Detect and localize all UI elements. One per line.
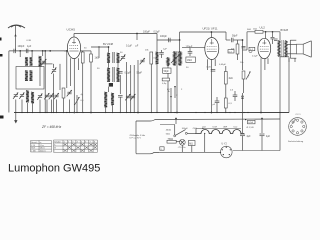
wire top bus 1: [74, 33, 157, 35]
wire top cap link: [226, 38, 243, 42]
bus junction 13: [76, 112, 77, 113]
wire drop b2: [27, 103, 29, 113]
resistor R10: [242, 71, 245, 93]
IF transformer T1 secondary: [107, 67, 120, 82]
wire T1 top: [91, 46, 109, 58]
wire v60: [59, 64, 61, 90]
svg-text:BV428: BV428: [281, 29, 289, 32]
wire ot top: [279, 32, 281, 41]
capacitor C5: [118, 72, 123, 74]
table wave ranges: [31, 141, 52, 153]
bus junction 30: [204, 112, 205, 113]
scan mark 1: [0, 38, 2, 41]
svg-text:CC·1: CC·1: [296, 114, 302, 116]
wire left drop: [8, 51, 10, 113]
svg-text:4kΩ: 4kΩ: [229, 78, 233, 80]
node t1: [136, 33, 138, 35]
resistor R4: [150, 52, 153, 113]
wire c15 down: [242, 136, 244, 151]
table switch matrix: [54, 140, 98, 153]
svg-text:U·Y2: U·Y2: [222, 144, 228, 146]
heater line 2: [136, 119, 280, 121]
wire bottom 1: [160, 151, 221, 153]
tube1 pin 2: [73, 58, 75, 113]
svg-text:0,5µF: 0,5µF: [154, 31, 161, 34]
label 70V: [192, 128, 197, 130]
label 0.1uF t1: [126, 45, 133, 47]
capacitor C14: [274, 39, 278, 40]
diode D1: [241, 93, 244, 133]
label 0.1uF side: [81, 100, 85, 102]
capacitor C12: [233, 91, 238, 101]
resistor R9: [231, 40, 239, 60]
trimmer CT9: [120, 55, 125, 61]
bus junction 3: [32, 112, 33, 113]
tube1 pin 1: [70, 58, 72, 86]
svg-text:3: 3: [72, 141, 73, 143]
trimmer CT1: [41, 59, 46, 65]
label 30 l: [97, 68, 100, 70]
coil L10 bottom: [111, 93, 114, 113]
coil wave band: [167, 58, 169, 113]
tube U3 UL2: [258, 38, 271, 58]
bus junction 32: [216, 112, 217, 113]
bus junction 7: [51, 112, 52, 113]
coil L7: [31, 92, 34, 103]
tube U1 UCH5: [67, 37, 80, 59]
wire antenna input: [9, 50, 68, 52]
bus junction 1: [21, 112, 22, 113]
resistor R6 box: [186, 57, 196, 62]
bus junction 25: [167, 112, 168, 113]
wire r12 lamp: [176, 141, 180, 143]
label 50pF a: [137, 72, 143, 75]
wire drop b8: [69, 100, 71, 113]
bus junction 6: [46, 112, 47, 113]
bus junction 8: [53, 112, 54, 113]
wire drop t1: [136, 34, 138, 41]
boxed label 50pF: [163, 68, 171, 73]
capacitor C1 100pF: [14, 49, 16, 53]
label UCH5: [67, 28, 76, 32]
wire tube1 left: [64, 50, 67, 52]
wire x136 down: [135, 121, 137, 154]
svg-text:0,1µF: 0,1µF: [126, 45, 133, 47]
label 0.5uF top: [154, 31, 161, 34]
bus junction 21: [134, 112, 135, 113]
boxed label right of U2: [228, 50, 234, 54]
wire ift2 bottom: [176, 66, 178, 114]
svg-text:L 180: L 180: [31, 151, 35, 153]
wire B1 vertical: [242, 39, 244, 70]
scan mark 2: [0, 54, 3, 57]
wire drop b7: [56, 100, 58, 113]
label 0.1uF a: [125, 72, 132, 75]
label UL2: [260, 26, 266, 30]
tube socket diagram: [289, 118, 307, 136]
svg-text:4µF: 4µF: [247, 136, 252, 138]
bus junction 26: [170, 112, 171, 113]
resistor R7: [224, 66, 227, 98]
wire top bus 3: [247, 31, 280, 33]
trimmer CT8: [67, 90, 72, 96]
svg-text:UCH: UCH: [213, 127, 218, 129]
resistor R11: [253, 28, 263, 33]
bus junction 33: [225, 112, 226, 113]
svg-text:Ø 1,5Ω: Ø 1,5Ω: [247, 127, 254, 129]
svg-text:0,05µF: 0,05µF: [219, 64, 227, 66]
coil L2: [30, 57, 33, 65]
AV arrows: [168, 86, 178, 113]
label 1kOhm: [95, 57, 100, 60]
node t4: [272, 31, 274, 33]
trimmer CT11: [125, 94, 130, 100]
capacitor C9: [188, 48, 193, 56]
tube3 pin2: [264, 58, 266, 70]
capacitor C6: [118, 75, 123, 113]
ground symbol: [14, 113, 17, 124]
wire drop k2: [31, 51, 33, 57]
tube2 pin1: [207, 59, 209, 70]
bus junction 36: [243, 112, 244, 113]
bus junction 9: [56, 112, 57, 113]
label 0.5 j: [230, 90, 234, 92]
trimmer CT4: [37, 94, 42, 100]
label 0.1 h: [252, 56, 258, 58]
capacitor C15 4uF: [240, 134, 251, 138]
trimmer CT2: [13, 93, 18, 99]
resistor R2: [81, 51, 84, 113]
svg-text:K 16: K 16: [31, 145, 35, 147]
bus junction 27: [174, 112, 175, 113]
svg-text:Schalter: Schalter: [54, 140, 61, 143]
wire top bus 2: [180, 32, 226, 40]
speaker LS: [287, 40, 311, 58]
shield box antenna coils: [16, 67, 44, 90]
coil L9 bottom: [104, 92, 107, 113]
bus junction 11: [66, 112, 67, 113]
coil L1: [25, 57, 28, 65]
node a3: [42, 50, 44, 52]
scan mark 3: [0, 116, 4, 119]
bus junction 31: [211, 112, 212, 113]
boxed label fuse: [247, 120, 256, 129]
resistor R5: [162, 78, 170, 85]
meter lamp big: [221, 144, 233, 158]
wire T1 bottom: [108, 87, 110, 92]
bus junction 35: [234, 112, 235, 113]
wire v126: [126, 62, 128, 113]
label 30pF: [84, 48, 87, 50]
svg-text:5kΩ: 5kΩ: [247, 29, 251, 31]
svg-text:Lumophon GW495: Lumophon GW495: [8, 162, 100, 174]
tube U2 UBF11: [205, 38, 219, 60]
svg-text:8: 8: [94, 141, 95, 143]
svg-text:50pF: 50pF: [137, 72, 143, 75]
label 50pF b: [232, 35, 238, 38]
node t3: [265, 31, 267, 33]
pot arrow P2: [246, 72, 251, 80]
wire meter left: [220, 152, 221, 153]
label 0.05 f: [219, 64, 227, 66]
bus junction 24: [156, 112, 157, 113]
trimmer CT7: [54, 93, 59, 99]
wire link l2: [175, 118, 177, 124]
label BV2248: [103, 42, 114, 46]
boxed label 0.1: [249, 47, 255, 51]
tube3 pin1: [260, 58, 262, 113]
svg-text:7: 7: [90, 141, 91, 143]
label 100pF d: [182, 128, 189, 130]
capacitor C13: [242, 47, 246, 48]
output transformer T3: [278, 40, 287, 57]
label socket top: [292, 114, 302, 124]
wire drop k3: [42, 51, 44, 56]
terminal box a: [160, 147, 164, 151]
bus junction 10: [63, 112, 64, 113]
label uF t2: [136, 45, 139, 47]
trimmer CT5: [44, 93, 49, 99]
svg-text:1MΩ: 1MΩ: [187, 60, 192, 62]
svg-text:1kΩ: 1kΩ: [95, 57, 100, 60]
bus junction 0: [15, 112, 16, 113]
svg-text:BV 2248: BV 2248: [103, 42, 114, 46]
wire ot bottom: [279, 56, 281, 119]
label 1uF k: [163, 49, 167, 51]
bus junction 15: [90, 112, 91, 113]
svg-text:ZF = 468 kHz: ZF = 468 kHz: [41, 125, 62, 129]
label 4uF side: [81, 94, 84, 96]
node a2: [31, 50, 33, 52]
label 0.1 n: [154, 58, 158, 60]
capacitor C8: [159, 50, 164, 58]
tube1 pin 3: [77, 58, 79, 70]
svg-text:750Ω: 750Ω: [168, 139, 174, 141]
trimmer CT3: [19, 93, 24, 99]
wire drop b6: [51, 100, 53, 113]
svg-text:MΩ: MΩ: [189, 143, 193, 145]
note text lines: [130, 135, 146, 140]
svg-text:100pF: 100pF: [18, 45, 25, 48]
svg-text:4µF: 4µF: [266, 136, 271, 138]
coil L5: [30, 70, 33, 80]
wire right up: [279, 119, 281, 151]
svg-text:1µF: 1µF: [27, 45, 32, 48]
svg-text:460Ω: 460Ω: [166, 130, 172, 132]
svg-text:2: 2: [68, 141, 69, 143]
svg-text:6·98: 6·98: [27, 40, 32, 42]
resistor R12 750: [167, 139, 176, 143]
bus junction 14: [82, 112, 83, 113]
tube2 pin3: [214, 59, 216, 66]
wire w3 left: [243, 32, 248, 50]
svg-text:50pF: 50pF: [164, 71, 170, 73]
bus junction 4: [39, 112, 40, 113]
wire tube2 top: [211, 31, 213, 37]
bus junction 23: [151, 112, 152, 113]
label 60 o: [167, 89, 170, 91]
wire v134: [133, 65, 135, 113]
svg-text:580 m: 580 m: [40, 148, 45, 150]
capacitor C2 1uF: [26, 49, 28, 53]
wire drop k1: [19, 51, 21, 57]
bus junction 18: [120, 112, 121, 113]
svg-text:100pF: 100pF: [160, 35, 167, 38]
heater labels: [202, 127, 238, 129]
wire drop b4: [39, 100, 41, 113]
bus junction 34: [229, 112, 230, 113]
label 100pF b: [160, 35, 167, 38]
wire v53b: [53, 74, 55, 113]
wire v138: [137, 60, 139, 113]
wire sw drop: [160, 125, 175, 135]
wire lamp down: [181, 145, 183, 152]
wire drop b1: [21, 100, 23, 113]
svg-text:-70V: -70V: [192, 128, 197, 130]
label 100pF c: [186, 46, 193, 49]
wire v53: [53, 64, 55, 68]
capacitor C16 4uF: [260, 134, 271, 138]
node a1: [19, 50, 21, 52]
svg-text:0,1A: 0,1A: [248, 121, 253, 124]
label ZF frequency: [41, 125, 62, 129]
svg-text:M 19: M 19: [31, 148, 35, 150]
label 6a98: [27, 40, 32, 42]
wire v45: [44, 50, 46, 112]
label 10k g: [240, 62, 244, 64]
svg-text:1kΩ: 1kΩ: [253, 28, 257, 30]
antenna: [8, 25, 25, 51]
wire speaker down: [289, 58, 295, 63]
wire tube1 top: [73, 34, 75, 38]
capacitor C7: [169, 38, 171, 42]
resistor R8: [224, 98, 232, 113]
svg-text:1µF: 1µF: [163, 49, 167, 51]
svg-text:UCH5: UCH5: [67, 28, 76, 32]
label 100pF e: [186, 67, 189, 69]
lamp small: [249, 49, 252, 52]
wire v66: [66, 50, 68, 88]
bus junction 20: [130, 112, 131, 113]
node t2: [179, 39, 181, 41]
label antenna caps: [18, 45, 32, 48]
wire c16 down: [261, 136, 263, 151]
wire bend lower: [136, 152, 160, 153]
IF transformer T2: [173, 51, 181, 66]
svg-text:2000 m: 2000 m: [40, 151, 46, 153]
svg-text:Sockelschaltung: Sockelschaltung: [288, 140, 304, 143]
trimmer CT10: [140, 58, 145, 64]
tube2 pin2: [211, 59, 213, 113]
svg-text:Bereich: Bereich: [31, 142, 37, 144]
svg-text:4: 4: [77, 141, 78, 143]
label BV428: [281, 29, 289, 32]
svg-text:50pF: 50pF: [232, 35, 238, 38]
label 20kOhm: [145, 50, 149, 52]
svg-text:5: 5: [81, 141, 82, 143]
coil L4: [25, 70, 28, 80]
label 460 ohm: [166, 130, 172, 136]
bus junction 5: [45, 112, 46, 113]
bus junction 38: [260, 112, 261, 113]
wire drop b0: [15, 100, 17, 113]
IF transformer T1 primary: [107, 52, 120, 63]
wire osc drop: [156, 34, 158, 53]
switch S1: [174, 130, 195, 137]
svg-text:0,1µF: 0,1µF: [252, 56, 258, 58]
tube3 pin3: [267, 58, 269, 64]
svg-text:· 7V 0,3a: · 7V 0,3a: [177, 147, 186, 149]
capacitor C10: [207, 67, 216, 72]
resistor R3: [90, 51, 93, 113]
coil L6: [26, 91, 29, 103]
bus junction 12: [69, 112, 70, 113]
svg-text:L: L: [54, 151, 55, 153]
trimmer CT12: [130, 94, 135, 100]
wire v130: [130, 65, 132, 113]
wire t2 left: [182, 46, 205, 48]
svg-text:UF21/ UF11: UF21/ UF11: [203, 26, 218, 30]
bus junction 39: [279, 112, 280, 113]
bus junction 2: [27, 112, 28, 113]
label 50pF m: [120, 52, 123, 54]
svg-text:UBF: UBF: [223, 127, 228, 129]
oscillator coil L8: [156, 52, 159, 113]
wire bottom 2: [233, 150, 280, 152]
label lamp: [177, 147, 186, 149]
wire drop b5: [46, 100, 48, 113]
potentiometer arrow P1: [75, 95, 80, 113]
resistor R1: [62, 88, 65, 113]
label 4kOhm: [229, 78, 233, 80]
svg-text:50Ω: 50Ω: [166, 133, 170, 135]
node a4: [49, 50, 51, 52]
wire T1 links: [109, 47, 119, 68]
label 5k i: [247, 29, 251, 31]
heater chain filaments: [195, 128, 244, 134]
wire tube1 right: [81, 50, 91, 52]
capacitor C11: [213, 97, 220, 113]
main ground bus: [14, 112, 289, 114]
label socket bottom: [288, 140, 304, 143]
title Lumophon GW495: [8, 162, 100, 174]
wire ift2 top: [179, 40, 181, 52]
wire drop b3: [32, 103, 34, 113]
bus junction 29: [195, 112, 196, 113]
bus junction 37: [247, 112, 248, 113]
bus junction 19: [126, 112, 127, 113]
trimmer CT1b: [51, 68, 56, 74]
wire right drop: [280, 57, 289, 113]
wire x262 up: [261, 118, 263, 133]
svg-text:6: 6: [85, 141, 86, 143]
wire box inner: [39, 67, 41, 86]
trimmer CT6: [49, 93, 54, 99]
svg-text:1: 1: [64, 141, 65, 143]
svg-text:UL2: UL2: [260, 26, 266, 30]
svg-text:U·P ca. 70 V: U·P ca. 70 V: [130, 138, 142, 140]
svg-text:0,3µ: 0,3µ: [162, 83, 167, 85]
svg-text:100pF: 100pF: [143, 31, 150, 34]
coil L3: [39, 56, 42, 66]
wire drop c13: [271, 32, 275, 44]
svg-text:0,1µF: 0,1µF: [125, 72, 132, 75]
bus junction 16: [105, 112, 106, 113]
bus junction 17: [112, 112, 113, 113]
boxed label MOhm: [188, 141, 195, 153]
wire x205: [204, 133, 205, 152]
wire h64: [40, 63, 53, 65]
